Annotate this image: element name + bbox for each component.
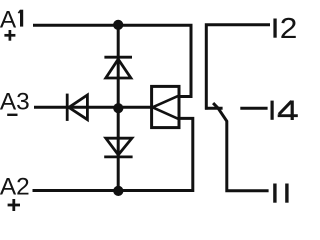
wire terminal 12 to switch pivot [206,25,270,110]
junction dot on A2 line [113,186,123,196]
polarity mark minus under A3 [7,114,17,116]
diode D2 triangle pointing down [106,138,132,155]
diode D3 triangle pointing left [69,95,88,120]
polarity mark + under A1 [4,30,15,41]
svg-text:A2: A2 [0,173,30,200]
junction dot on A1 line [113,20,123,30]
diode D1 triangle pointing up [106,59,131,78]
contact label 12 [273,13,297,45]
diode D2 cathode bar [104,155,132,158]
svg-text:A: A [0,6,17,33]
polarity mark + under A2 [8,199,20,211]
wire A2 line to coil bottom [33,118,193,190]
diode D1 cathode bar [104,56,132,59]
wire A3 line [34,106,151,109]
junction dot on A3 line [113,103,123,113]
relay coil K1 [152,86,179,127]
wire switch blade to terminal 11 [213,103,269,191]
wire vertical bus with diodes [117,25,120,190]
svg-text:2: 2 [280,13,298,45]
wire fixed contact bar NC [205,107,223,110]
wire A1 line to coil top [33,25,191,96]
wire terminal 14 line [240,107,267,110]
svg-text:A3: A3 [0,88,30,115]
diode D3 cathode bar [66,94,69,121]
terminal label A1 [0,6,23,33]
contact label 14 [271,101,298,121]
contact label 11 [273,184,288,203]
